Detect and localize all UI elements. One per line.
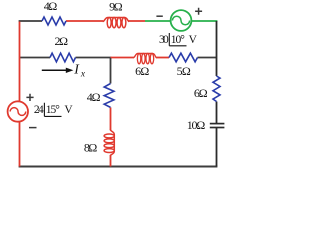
svg-text:6Ω: 6Ω <box>135 64 149 78</box>
svg-text:4Ω: 4Ω <box>44 0 58 13</box>
svg-text:15°: 15° <box>46 104 60 116</box>
svg-text:24: 24 <box>34 104 44 116</box>
svg-text:x: x <box>80 70 86 80</box>
svg-text:V: V <box>189 34 198 46</box>
svg-text:10Ω: 10Ω <box>187 118 206 132</box>
svg-text:6Ω: 6Ω <box>194 86 208 100</box>
svg-text:2Ω: 2Ω <box>55 34 69 48</box>
svg-text:10°: 10° <box>171 34 185 46</box>
svg-text:4Ω: 4Ω <box>87 90 101 104</box>
svg-text:V: V <box>64 104 73 116</box>
svg-text:8Ω: 8Ω <box>84 141 97 155</box>
svg-text:5Ω: 5Ω <box>177 64 191 78</box>
svg-text:30: 30 <box>159 34 169 46</box>
svg-text:9Ω: 9Ω <box>109 0 123 13</box>
